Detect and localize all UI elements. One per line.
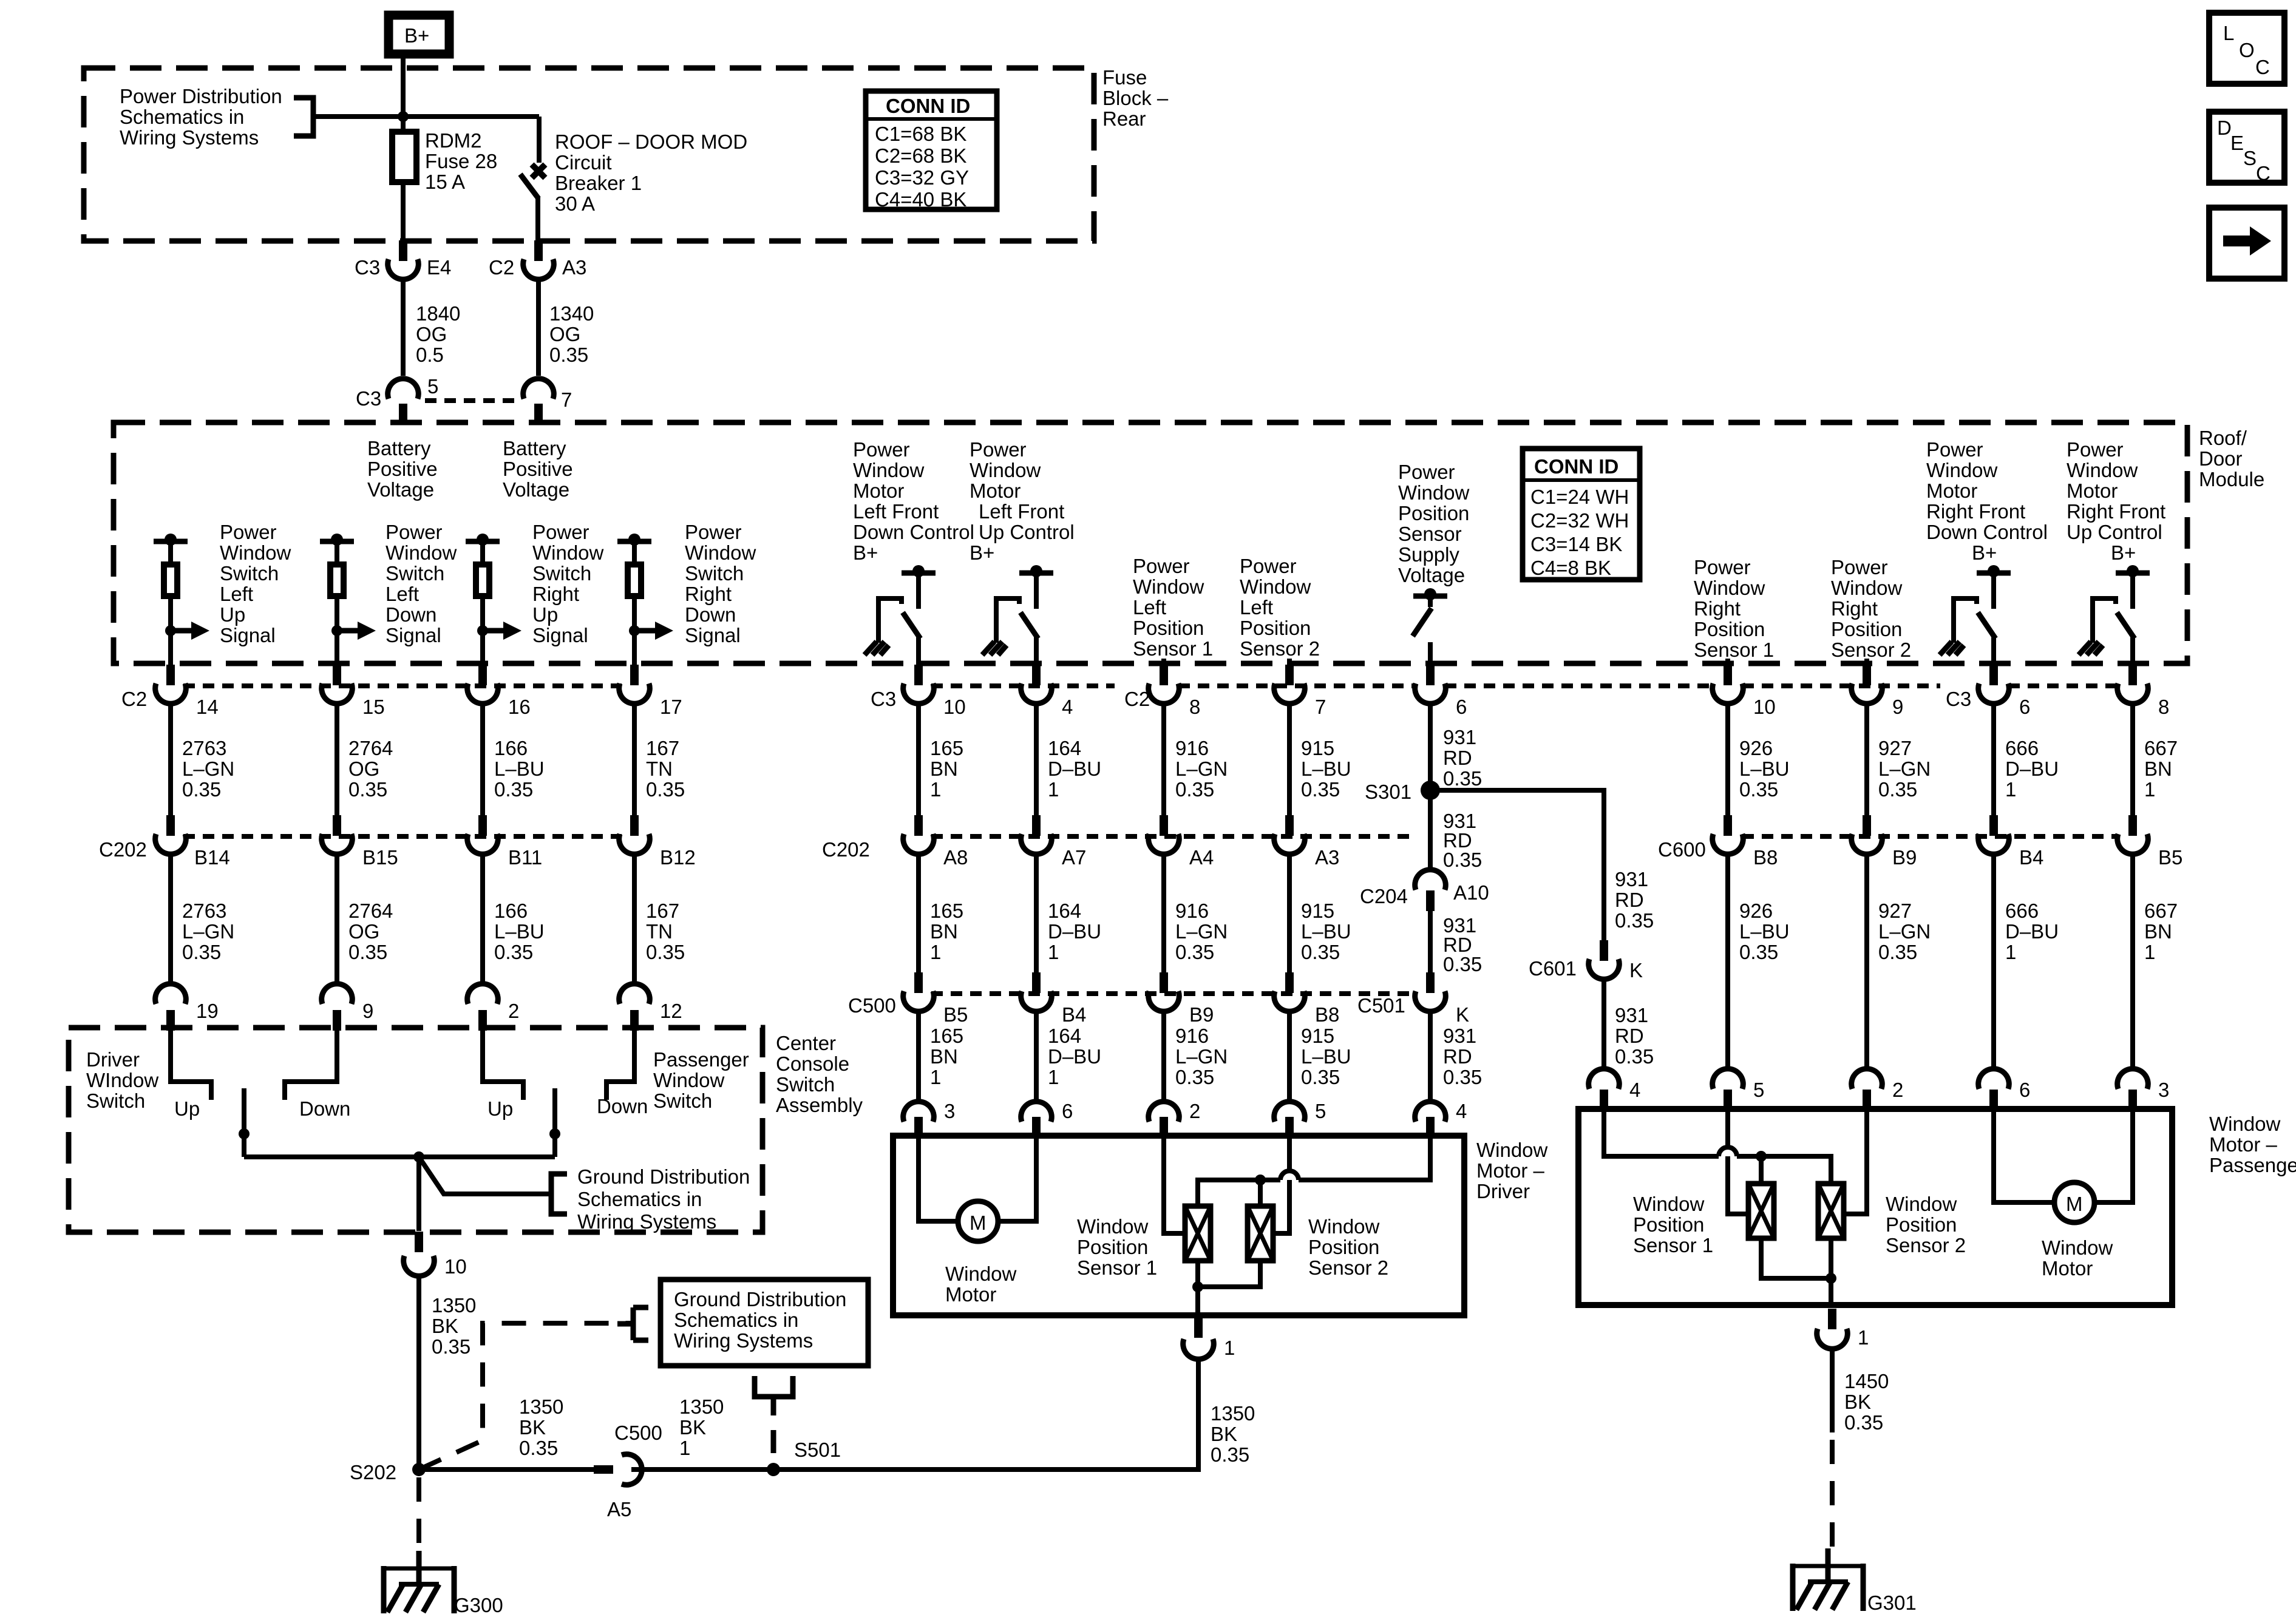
svg-text:Sensor 1: Sensor 1 xyxy=(1133,637,1213,660)
svg-text:30 A: 30 A xyxy=(555,192,595,215)
svg-text:Ground Distribution: Ground Distribution xyxy=(577,1165,750,1188)
svg-text:2763: 2763 xyxy=(182,900,226,922)
svg-text:C2: C2 xyxy=(1124,688,1150,710)
svg-text:Power: Power xyxy=(1240,555,1297,577)
svg-text:Switch: Switch xyxy=(776,1073,835,1096)
svg-text:B14: B14 xyxy=(194,846,230,869)
dashed link to S501 xyxy=(771,1430,776,1457)
svg-text:1350: 1350 xyxy=(679,1395,724,1418)
svg-text:1350: 1350 xyxy=(519,1395,563,1418)
svg-text:Wiring Systems: Wiring Systems xyxy=(120,126,259,149)
svg-text:C3: C3 xyxy=(355,256,380,279)
svg-text:1: 1 xyxy=(2005,778,2016,801)
Ground Distribution Schematics box (S202) xyxy=(661,1280,868,1366)
svg-text:C1=24 WH: C1=24 WH xyxy=(1530,486,1629,508)
Window Motor - Passenger box xyxy=(1578,1109,2172,1305)
svg-text:A3: A3 xyxy=(562,256,586,279)
wire to pin 1 (driver) xyxy=(1195,1287,1200,1315)
connector C600 pin B9 xyxy=(1852,815,1917,869)
svg-text:Motor: Motor xyxy=(2067,480,2118,502)
connector pin 3 (driver motor) xyxy=(903,1100,956,1137)
svg-text:12: 12 xyxy=(660,1000,682,1022)
ground G300 xyxy=(384,1551,503,1616)
svg-text:9: 9 xyxy=(362,1000,373,1022)
svg-text:5: 5 xyxy=(1753,1079,1764,1101)
svg-text:D–BU: D–BU xyxy=(2005,920,2059,943)
connector C3 pin 5 xyxy=(356,375,438,424)
wire 164 D-BU 1 (upper) xyxy=(1036,703,1101,822)
svg-text:6: 6 xyxy=(1062,1100,1073,1122)
svg-text:S: S xyxy=(2243,147,2257,169)
svg-text:OG: OG xyxy=(348,758,379,780)
svg-text:C2=32 WH: C2=32 WH xyxy=(1530,509,1629,532)
hop over 926 wire (passenger) xyxy=(1719,1147,1737,1156)
connector pin 2 (passenger motor) xyxy=(1852,1069,1904,1110)
svg-text:667: 667 xyxy=(2144,900,2178,922)
window motor M (passenger) xyxy=(1994,1109,2133,1280)
svg-text:Roof/: Roof/ xyxy=(2199,427,2247,449)
svg-text:C: C xyxy=(2255,56,2270,78)
svg-text:1: 1 xyxy=(1048,778,1059,801)
svg-text:6: 6 xyxy=(2019,696,2030,718)
label Window Motor - Driver xyxy=(1476,1139,1548,1202)
svg-text:1: 1 xyxy=(1858,1326,1869,1349)
window position sensor 1 (driver) xyxy=(1077,1206,1211,1279)
svg-text:Window: Window xyxy=(653,1069,725,1091)
svg-text:WIndow: WIndow xyxy=(86,1069,158,1091)
svg-text:Wiring Systems: Wiring Systems xyxy=(674,1329,813,1352)
svg-text:0.35: 0.35 xyxy=(1615,909,1654,932)
svg-text:1: 1 xyxy=(1048,941,1059,963)
svg-text:0.35: 0.35 xyxy=(1175,1066,1214,1088)
connector C2 pin 8 xyxy=(1124,665,1200,718)
connector C600 pin B4 xyxy=(1978,815,2044,869)
svg-text:5: 5 xyxy=(1315,1100,1326,1122)
svg-text:B11: B11 xyxy=(508,846,542,869)
svg-text:K: K xyxy=(1629,959,1643,981)
svg-text:Window: Window xyxy=(2042,1236,2113,1259)
svg-text:L–GN: L–GN xyxy=(1175,758,1228,780)
svg-text:L–GN: L–GN xyxy=(1175,920,1228,943)
svg-text:BK: BK xyxy=(679,1416,706,1439)
svg-text:3: 3 xyxy=(944,1100,955,1122)
svg-text:C500: C500 xyxy=(848,994,896,1017)
svg-text:Rear: Rear xyxy=(1102,107,1146,130)
svg-text:B4: B4 xyxy=(1062,1003,1086,1026)
svg-text:C3=32 GY: C3=32 GY xyxy=(875,166,969,189)
svg-text:Sensor 2: Sensor 2 xyxy=(1308,1256,1388,1279)
svg-text:0.35: 0.35 xyxy=(646,778,685,801)
label power window left position sensor 1 xyxy=(1133,555,1213,660)
wire 931 RD 0.35 below C204 xyxy=(1430,911,1482,977)
svg-text:926: 926 xyxy=(1739,900,1773,922)
connector pin 12 xyxy=(619,984,682,1031)
wire 667 BN 1 (lower right) xyxy=(2133,854,2178,1067)
svg-text:915: 915 xyxy=(1301,900,1334,922)
svg-text:Position: Position xyxy=(1240,617,1311,639)
svg-text:A7: A7 xyxy=(1062,846,1086,869)
connector C3 pin 7 xyxy=(523,379,572,424)
connector C202 pin B11 xyxy=(467,815,543,869)
svg-text:165: 165 xyxy=(930,737,963,759)
svg-text:BN: BN xyxy=(930,1045,958,1068)
svg-text:0.35: 0.35 xyxy=(519,1437,558,1459)
svg-text:0.35: 0.35 xyxy=(1739,941,1778,963)
Window Motor - Driver box xyxy=(893,1136,1464,1315)
svg-text:D–BU: D–BU xyxy=(1048,920,1101,943)
svg-text:B9: B9 xyxy=(1892,846,1917,869)
svg-text:C501: C501 xyxy=(1357,994,1405,1017)
svg-text:915: 915 xyxy=(1301,1025,1334,1047)
dotted connector line C3 top row xyxy=(425,398,519,403)
svg-text:Position: Position xyxy=(1398,502,1469,524)
svg-text:0.35: 0.35 xyxy=(432,1335,470,1358)
svg-text:Power: Power xyxy=(853,438,910,461)
svg-text:L–GN: L–GN xyxy=(182,920,234,943)
node sensor1 supply junction (passenger) xyxy=(1756,1151,1767,1162)
svg-text:B+: B+ xyxy=(2111,541,2136,564)
svg-text:0.35: 0.35 xyxy=(1301,941,1340,963)
svg-text:165: 165 xyxy=(930,1025,963,1047)
wire C500 to S501 xyxy=(631,1467,773,1472)
svg-text:Power: Power xyxy=(1694,556,1751,578)
svg-text:C3=14 BK: C3=14 BK xyxy=(1530,533,1622,555)
label Battery Positive Voltage (right) xyxy=(503,437,573,501)
svg-text:931: 931 xyxy=(1615,868,1648,890)
bracket below ground distribution box xyxy=(755,1376,793,1415)
fuse RDM2 Fuse 28 15 A xyxy=(392,117,497,240)
svg-text:B+: B+ xyxy=(404,24,429,47)
svg-text:666: 666 xyxy=(2005,737,2039,759)
wire power distribution feed xyxy=(313,114,539,119)
svg-text:4: 4 xyxy=(1456,1100,1467,1122)
wire right pin9 inside module xyxy=(1864,659,1869,666)
svg-text:8: 8 xyxy=(1189,696,1200,718)
circuit breaker ROOF - DOOR MOD Circuit Breaker 1 30 A xyxy=(520,117,747,240)
switch column 3: power window switch right up signal xyxy=(466,521,604,666)
svg-text:C500: C500 xyxy=(614,1422,662,1444)
connector C202 pin A8 xyxy=(822,815,968,869)
svg-text:RDM2: RDM2 xyxy=(425,129,482,152)
svg-text:B+: B+ xyxy=(1972,541,1997,564)
svg-text:1: 1 xyxy=(930,778,941,801)
connector pin 5 (passenger motor) xyxy=(1713,1069,1765,1110)
window position sensor 2 (driver) xyxy=(1248,1206,1388,1279)
wire S202 to C500 xyxy=(419,1467,598,1472)
svg-text:C3: C3 xyxy=(871,688,896,710)
svg-text:14: 14 xyxy=(196,696,219,718)
svg-text:Signal: Signal xyxy=(385,624,441,646)
connector row C600: dotted line xyxy=(1742,834,2118,839)
svg-text:A3: A3 xyxy=(1315,846,1339,869)
wire 164 D-BU 1 (lower) xyxy=(1036,854,1101,978)
label power window left position sensor 2 xyxy=(1240,555,1320,660)
wire 916 into sensor 1 xyxy=(1164,1136,1185,1233)
svg-text:E: E xyxy=(2230,132,2244,154)
svg-text:Position: Position xyxy=(1133,617,1204,639)
svg-text:1450: 1450 xyxy=(1844,1370,1889,1392)
switch common bus xyxy=(244,1154,555,1159)
connector C500 pin B4 xyxy=(1021,972,1087,1026)
svg-text:931: 931 xyxy=(1443,1025,1476,1047)
svg-text:Down Control: Down Control xyxy=(853,521,974,543)
connector C2 pin A3 xyxy=(489,240,586,279)
svg-text:164: 164 xyxy=(1048,1025,1081,1047)
wire to ground distribution pointer xyxy=(419,1157,550,1194)
svg-text:Right: Right xyxy=(1694,597,1741,620)
svg-text:Positive: Positive xyxy=(503,458,573,480)
svg-text:1840: 1840 xyxy=(416,302,460,325)
svg-text:A5: A5 xyxy=(607,1498,631,1520)
connector C202 pin B12 xyxy=(619,815,696,869)
wire S501 to driver motor pin 1 xyxy=(773,1360,1198,1470)
svg-text:Switch: Switch xyxy=(653,1090,712,1112)
svg-text:15 A: 15 A xyxy=(425,171,465,193)
wire 931 supply inside driver box xyxy=(1299,1136,1430,1180)
svg-text:Switch: Switch xyxy=(385,562,444,585)
svg-text:D–BU: D–BU xyxy=(2005,758,2059,780)
svg-text:Battery: Battery xyxy=(503,437,566,459)
connector row C500: dotted line xyxy=(931,991,1416,996)
wire 926 into sensor 1 (passenger) xyxy=(1728,1109,1748,1214)
svg-text:Motor: Motor xyxy=(1926,480,1977,502)
svg-text:Down: Down xyxy=(299,1097,350,1120)
svg-text:Voltage: Voltage xyxy=(503,478,569,501)
svg-text:Right: Right xyxy=(685,583,732,605)
svg-text:RD: RD xyxy=(1443,747,1472,769)
svg-text:Left Front: Left Front xyxy=(979,500,1064,523)
svg-text:1: 1 xyxy=(679,1437,690,1459)
svg-text:0.35: 0.35 xyxy=(1443,767,1482,790)
svg-text:0.35: 0.35 xyxy=(1301,778,1340,801)
svg-text:OG: OG xyxy=(416,323,447,345)
svg-text:Sensor: Sensor xyxy=(1398,523,1462,545)
motor control switch: right front up (internal) xyxy=(2079,565,2150,666)
svg-text:1340: 1340 xyxy=(549,302,594,325)
svg-text:Passenger: Passenger xyxy=(2209,1154,2296,1176)
wire B+ to fuse block xyxy=(401,58,406,117)
wire 931 supply inside passenger box xyxy=(1604,1109,1719,1156)
connector C202 pin A7 xyxy=(1021,815,1087,869)
label 1350 BK 1 xyxy=(679,1395,724,1459)
svg-text:C204: C204 xyxy=(1360,885,1408,907)
svg-text:Power: Power xyxy=(385,521,443,543)
svg-text:C2=68 BK: C2=68 BK xyxy=(875,144,966,167)
svg-text:C3: C3 xyxy=(356,387,381,410)
connector pin 9 xyxy=(322,984,374,1031)
ground G301 xyxy=(1793,1548,1917,1614)
wire 931 RD 0.35 below C601 xyxy=(1604,979,1654,1068)
connector pin 6 (driver motor) xyxy=(1021,1100,1073,1137)
wire 927 L-GN 0.35 (lower right) xyxy=(1867,854,1931,1067)
svg-text:Power: Power xyxy=(1398,461,1455,483)
svg-text:C202: C202 xyxy=(99,838,147,861)
svg-text:B15: B15 xyxy=(362,846,398,869)
svg-text:Motor: Motor xyxy=(970,480,1021,502)
switch column 2: power window switch left down signal xyxy=(320,521,457,666)
svg-text:1350: 1350 xyxy=(1211,1402,1255,1425)
svg-text:Positive: Positive xyxy=(367,458,438,480)
node splice at fuse top xyxy=(398,111,409,122)
svg-text:0.35: 0.35 xyxy=(1443,849,1482,871)
connector C3 pin 10 xyxy=(871,665,966,718)
svg-text:164: 164 xyxy=(1048,900,1081,922)
svg-text:Wiring Systems: Wiring Systems xyxy=(577,1210,716,1233)
svg-text:Sensor 2: Sensor 2 xyxy=(1831,639,1911,661)
B+ battery feed box xyxy=(389,15,449,54)
svg-text:Down: Down xyxy=(385,603,436,626)
svg-text:S501: S501 xyxy=(794,1439,841,1461)
connector C3 pin E4 xyxy=(355,240,451,279)
svg-text:Window: Window xyxy=(1831,577,1903,599)
wire right pin10 inside module xyxy=(1725,659,1730,666)
wire 2764 OG 0.35 (upper) xyxy=(337,703,393,822)
wire 926 L-BU 0.35 (upper right) xyxy=(1728,703,1790,822)
svg-text:2764: 2764 xyxy=(348,737,393,759)
connector pin 4 (passenger motor) xyxy=(1589,1069,1641,1110)
svg-text:0.35: 0.35 xyxy=(1443,1066,1482,1088)
hop over 915 wire xyxy=(1280,1171,1299,1180)
passenger switch Down contact xyxy=(597,1031,648,1117)
Center Console Switch Assembly dashed box xyxy=(69,1028,763,1232)
svg-text:167: 167 xyxy=(646,900,679,922)
svg-text:Schematics in: Schematics in xyxy=(577,1188,702,1210)
svg-text:Block –: Block – xyxy=(1102,87,1169,109)
connector row C202: dotted lines xyxy=(183,834,622,839)
svg-text:L–BU: L–BU xyxy=(1301,1045,1351,1068)
splice S501 xyxy=(767,1439,841,1476)
svg-text:L: L xyxy=(2223,22,2234,44)
svg-text:S202: S202 xyxy=(350,1461,396,1483)
wire 165 BN 1 (lower) xyxy=(919,854,963,978)
label power window motor right front up control B+ xyxy=(2067,438,2165,564)
svg-text:1: 1 xyxy=(2005,941,2016,963)
switch column 4: power window switch right down signal xyxy=(617,521,756,666)
svg-text:CONN ID: CONN ID xyxy=(886,95,970,117)
svg-text:C2: C2 xyxy=(489,256,514,279)
wire 666 D-BU 1 (lower right) xyxy=(1994,854,2059,1067)
label Ground Distribution Schematics in Wiring Systems (console) xyxy=(577,1165,750,1233)
splice S202 xyxy=(350,1461,426,1483)
connector pin 3 (passenger motor) xyxy=(2118,1069,2170,1110)
svg-text:Position: Position xyxy=(1308,1236,1379,1258)
svg-text:17: 17 xyxy=(660,696,682,718)
svg-text:CONN ID: CONN ID xyxy=(1534,455,1618,478)
svg-text:0.35: 0.35 xyxy=(646,941,685,963)
svg-text:L–BU: L–BU xyxy=(494,920,545,943)
label power window right position sensor 1 xyxy=(1694,556,1774,661)
wire to pin 1 (passenger) xyxy=(1829,1278,1833,1305)
svg-text:2763: 2763 xyxy=(182,737,226,759)
switch column 1: power window switch left up signal xyxy=(154,521,291,666)
svg-text:Position: Position xyxy=(1694,618,1765,640)
window position sensor 1 (passenger) xyxy=(1633,1184,1774,1256)
svg-text:1: 1 xyxy=(930,1066,941,1088)
connector C204 pin A10 xyxy=(1360,870,1489,911)
wire 927 into sensor 2 (passenger) xyxy=(1844,1109,1867,1214)
wire 931 RD 0.35 below S301 xyxy=(1430,790,1482,871)
wire 164 to driver motor xyxy=(1036,1011,1101,1100)
wire 927 L-GN 0.35 (upper right) xyxy=(1867,703,1931,822)
svg-text:931: 931 xyxy=(1615,1004,1648,1026)
svg-text:Window: Window xyxy=(1633,1193,1705,1215)
svg-text:Down: Down xyxy=(597,1095,648,1117)
node sensor ground junction (passenger) xyxy=(1826,1273,1836,1284)
svg-text:10: 10 xyxy=(444,1255,467,1278)
svg-text:Motor: Motor xyxy=(2042,1257,2093,1280)
svg-text:Window: Window xyxy=(1308,1215,1380,1238)
driver switch Down contact xyxy=(285,1031,350,1120)
svg-text:9: 9 xyxy=(1892,696,1903,718)
svg-text:Position: Position xyxy=(1886,1213,1957,1236)
label 1350 BK 0.35 (driver motor ground) xyxy=(1211,1402,1255,1466)
connector C202 pin B15 xyxy=(322,815,398,869)
connector C600 pin B8 xyxy=(1658,815,1778,869)
connector C2 pin 7 xyxy=(1274,665,1326,718)
svg-text:L–BU: L–BU xyxy=(1739,758,1790,780)
svg-text:Voltage: Voltage xyxy=(1398,564,1465,586)
connector C2 pin 15 xyxy=(322,665,385,718)
svg-text:C4=8 BK: C4=8 BK xyxy=(1530,557,1611,579)
svg-text:Right Front: Right Front xyxy=(1926,500,2025,523)
svg-text:0.35: 0.35 xyxy=(1301,1066,1340,1088)
label power window motor left front up control B+ xyxy=(970,438,1075,564)
svg-text:ROOF – DOOR MOD: ROOF – DOOR MOD xyxy=(555,131,747,153)
svg-text:165: 165 xyxy=(930,900,963,922)
svg-text:0.35: 0.35 xyxy=(494,778,533,801)
svg-text:C: C xyxy=(2256,162,2271,185)
svg-text:Passenger: Passenger xyxy=(653,1048,749,1071)
svg-text:2764: 2764 xyxy=(348,900,393,922)
wire 931 to driver motor xyxy=(1430,1011,1482,1100)
svg-text:Assembly: Assembly xyxy=(776,1094,863,1116)
svg-text:OG: OG xyxy=(348,920,379,943)
svg-text:M: M xyxy=(2066,1193,2083,1215)
svg-text:L–GN: L–GN xyxy=(1878,758,1931,780)
label power window motor right front down control B+ xyxy=(1926,438,2048,564)
wire 916 L-GN 0.35 (lower) xyxy=(1164,854,1228,978)
wire 915 into sensor 2 xyxy=(1273,1136,1289,1233)
svg-text:Sensor 2: Sensor 2 xyxy=(1240,637,1320,660)
connector pin 2 (driver motor) xyxy=(1149,1100,1201,1137)
svg-text:Position: Position xyxy=(1831,618,1902,640)
svg-text:C202: C202 xyxy=(822,838,870,861)
connector C2 pin 16 xyxy=(467,665,531,718)
connector pin 1 (driver motor) xyxy=(1183,1317,1235,1359)
off-page bracket ground distribution (S202) xyxy=(617,1307,648,1340)
svg-text:0.5: 0.5 xyxy=(416,344,444,366)
svg-text:C4=40 BK: C4=40 BK xyxy=(875,188,966,211)
DESC box xyxy=(2209,112,2284,185)
svg-text:TN: TN xyxy=(646,758,673,780)
passenger switch Up contact xyxy=(483,1031,523,1120)
LOC box xyxy=(2209,13,2284,84)
svg-text:Right: Right xyxy=(532,583,579,605)
svg-text:1350: 1350 xyxy=(432,1294,476,1317)
dashed wire S202 to G300 xyxy=(416,1477,421,1560)
svg-text:Fuse: Fuse xyxy=(1102,66,1147,89)
connector pin 6 (passenger motor) xyxy=(1978,1069,2031,1110)
svg-text:Position: Position xyxy=(1633,1213,1704,1236)
passenger switch pole xyxy=(549,1088,560,1157)
connector pin 5 (driver motor) xyxy=(1274,1100,1326,1137)
wire 166 L-BU 0.35 (upper) xyxy=(483,703,545,822)
svg-text:Console: Console xyxy=(776,1053,849,1075)
svg-text:Door: Door xyxy=(2199,447,2243,470)
node sensor ground junction (driver) xyxy=(1192,1281,1203,1292)
svg-text:Window: Window xyxy=(945,1263,1017,1285)
svg-text:Schematics in: Schematics in xyxy=(120,106,244,128)
